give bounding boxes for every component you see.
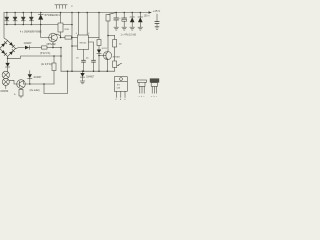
op-amp U1 NE555 [78, 35, 89, 50]
svg-text:*: * [121, 63, 122, 66]
resistor R6 [113, 36, 117, 62]
wire bridge bottom node [7, 57, 9, 63]
diode D12 [28, 71, 32, 84]
ground under C1 [114, 27, 119, 30]
svg-text:10k: 10k [119, 43, 122, 45]
diode D6 1N4007 [25, 46, 29, 50]
transistor T1 MPSA92 [49, 33, 58, 42]
svg-text:+15 V: +15 V [153, 9, 161, 13]
lamp La2 [2, 78, 9, 85]
svg-text:1N4007: 1N4007 [86, 77, 95, 79]
wire to R1 [29, 47, 41, 49]
wire R1 to node [47, 47, 61, 49]
ground under C2 [122, 27, 127, 30]
wire IC pin2 stub [72, 45, 78, 47]
svg-text:b: b [154, 96, 155, 98]
wire return loop [44, 71, 68, 93]
svg-text:(2x 0,5 W): (2x 0,5 W) [41, 64, 52, 66]
wire base from diode column [41, 25, 52, 38]
svg-text:e: e [151, 96, 152, 98]
lamp La1 [2, 71, 9, 78]
resistor R7 [113, 61, 117, 71]
svg-text:MPSA42: MPSA42 [113, 56, 120, 59]
wire node column x61 [60, 47, 62, 71]
ground under D8 [80, 81, 85, 84]
diode D7 [97, 50, 101, 72]
svg-text:1k: 1k [14, 94, 16, 96]
svg-text:ORP60: ORP60 [0, 90, 9, 93]
resistor R8 [19, 88, 23, 98]
note comb mark above rail [55, 5, 67, 9]
wire collector to node [58, 34, 61, 37]
package TO-220 BT145 [114, 77, 127, 98]
resistor R2 dropper [58, 12, 63, 39]
wire left drop [4, 13, 8, 41]
label zie* [118, 63, 122, 65]
diode D11 [5, 63, 9, 71]
diode D2 [13, 12, 17, 26]
ground under C3 [155, 27, 159, 30]
svg-text:c: c [144, 96, 145, 98]
svg-text:(6): (6) [86, 57, 89, 59]
wire U1 pin1 to ground rail [82, 50, 86, 72]
wire lower array rail [4, 24, 72, 26]
wire to series node [8, 56, 61, 58]
svg-text:4 x 1N5408/BYW96E: 4 x 1N5408/BYW96E [20, 32, 42, 34]
wire rectified line [16, 48, 25, 49]
svg-text:(5 W 5 %): (5 W 5 %) [40, 53, 50, 55]
wire ground rail [61, 70, 115, 72]
svg-text:8: 8 [88, 33, 89, 35]
capacitor C1 [114, 12, 119, 27]
resistor R4 [97, 12, 101, 50]
package TO-92 b [150, 78, 159, 93]
svg-text:1N4007: 1N4007 [24, 43, 33, 45]
svg-text:220Ω: 220Ω [64, 29, 69, 31]
ground under D9 [130, 27, 135, 30]
transistor T3 [17, 80, 26, 89]
wire collector column R5 [106, 13, 116, 52]
resistor R1 [42, 46, 48, 49]
svg-text:MPSA92: MPSA92 [47, 43, 57, 46]
svg-text:4: 4 [76, 33, 77, 35]
bridge rectifier B1 [0, 41, 16, 57]
wire U1 pin3 stub [89, 37, 100, 39]
diode D5 BYW96E [38, 12, 43, 26]
diode D9 zener [130, 12, 135, 27]
wire vertical node column x72 [71, 12, 73, 72]
wire emitter down [52, 42, 54, 48]
diode D3 [21, 12, 25, 26]
svg-text:BYW96E/200 V: BYW96E/200 V [45, 15, 61, 17]
svg-text:b: b [141, 96, 142, 98]
svg-text:100 n: 100 n [144, 16, 150, 18]
svg-text:1 x 47k (0,5 W): 1 x 47k (0,5 W) [121, 35, 137, 37]
resistor R9 series [52, 55, 56, 84]
svg-text:e: e [139, 96, 140, 98]
diode D4 [29, 12, 33, 26]
wire cross link [108, 35, 115, 37]
diode D8 to ground [80, 70, 84, 80]
svg-text:NE555: NE555 [80, 42, 87, 44]
wire top +V rail [4, 12, 149, 14]
svg-text:1N4007: 1N4007 [33, 77, 42, 79]
resistor R3 [61, 36, 78, 39]
svg-text:BC557: BC557 [102, 48, 108, 50]
diode D10 zener [138, 12, 143, 27]
diode D1 [5, 12, 9, 26]
wire base from lamp [9, 80, 19, 84]
svg-text:(zie tekst): (zie tekst) [30, 89, 40, 92]
wire collector row [24, 81, 54, 85]
wire lamp bottom [5, 85, 7, 88]
capacitor C2 electrolytic [119, 12, 126, 27]
wire U1 pin5 column [89, 42, 96, 72]
ground under D10 [138, 27, 143, 30]
transistor T2 [99, 51, 112, 72]
wire U1 supply pins [78, 12, 88, 35]
node +15V terminal arrow [149, 11, 152, 14]
capacitor C3 [155, 14, 159, 26]
package TO-92 a [138, 80, 147, 93]
svg-text:(7): (7) [76, 57, 79, 59]
svg-text:×: × [71, 4, 73, 8]
